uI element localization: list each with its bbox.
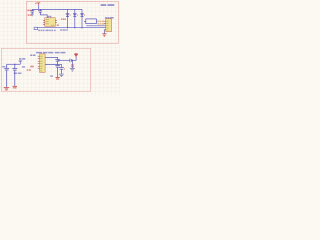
capacitor C6 [55, 66, 60, 78]
U1 pin stubs left [43, 20, 45, 24]
ground under C7 (dark) [59, 74, 64, 76]
net label text under bus left (blue) [38, 29, 55, 31]
value text (orange) [97, 20, 104, 22]
value text 1k (red) [61, 18, 66, 20]
wire J2 lower pin to C7 [45, 64, 61, 67]
U1 inner pin names [45, 20, 54, 26]
label C3 (blue text) [2, 66, 5, 68]
label text above J1 (blue) [105, 17, 114, 19]
capacitor C7 [59, 68, 64, 74]
wire branch to C8 [58, 59, 70, 61]
net label text under bus mid (blue) [60, 29, 68, 31]
ground under J1 (red) [102, 34, 106, 36]
capacitor C1 [30, 9, 34, 13]
value text (red) under U1 right [57, 24, 59, 26]
wire C2 to U1 [40, 15, 47, 18]
J1 pin stubs left [104, 21, 106, 30]
J2 pin stubs left [38, 56, 40, 68]
capacitor C8 (horizontal) [70, 59, 72, 63]
label U1 (blue text) [48, 16, 52, 18]
pin number 1 (red) [37, 10, 40, 11]
sheet frame 2 (bottom schematic sheet border) [1, 48, 90, 91]
label left of J2 (blue text) [30, 54, 35, 56]
connector J2 body [40, 54, 46, 73]
IC U1 body [45, 18, 55, 27]
junction dots on bus [67, 27, 68, 28]
J2 inner pin marks [40, 56, 43, 71]
wire VCC stem [19, 61, 21, 64]
pin number red mark at C7 [63, 68, 66, 69]
power flag (red) sheet2 right [75, 54, 78, 57]
diode D1 [66, 9, 71, 27]
sheet frame 1 (top schematic sheet border) [26, 2, 118, 44]
label small (blue text) bottom [50, 75, 53, 77]
ground bars under C4 (red) [13, 86, 18, 88]
label left of J2 (red text) [30, 66, 34, 68]
capacitor C4 [12, 64, 17, 86]
connector J1 body [106, 19, 112, 32]
wire upper bus [86, 25, 106, 27]
net label +5V (red text) [27, 9, 31, 11]
wire J2 pin to C5 chain [45, 57, 58, 59]
power flag +5V P1 [35, 3, 40, 5]
capacitor C2 [39, 9, 43, 15]
sheet title text (blue, top right) [101, 4, 115, 6]
capacitor C5 [55, 60, 60, 66]
bus entry square node A [34, 27, 37, 30]
power flag VCC bar [19, 60, 22, 62]
diode D2 [73, 9, 78, 27]
net label (red text) beside ground [71, 64, 74, 66]
power flag VCC sheet2 (blue text) [19, 58, 25, 60]
label C4 (blue text) [22, 66, 25, 68]
ground under C3 (red) [4, 88, 10, 90]
diode D3 [80, 9, 85, 27]
ground right (dark) [70, 68, 75, 71]
ground under C1 [31, 14, 34, 16]
wire J1 ground stem [103, 30, 105, 34]
junction dot [14, 64, 15, 65]
J1 inner pin marks [106, 21, 108, 30]
label text above J2 (long blue) [36, 52, 65, 54]
net label GND (red text) [28, 14, 32, 16]
wire C8 to power flag [72, 57, 76, 61]
wire stem from +5V flag [38, 5, 40, 10]
value text (red) right of caps [27, 69, 31, 71]
ground bars below C6 (red) [56, 77, 60, 79]
wire horizontal VCC net sheet2 [7, 63, 21, 65]
wire lower bus [38, 27, 106, 29]
junction dot [72, 60, 73, 61]
capacitor C3 [4, 64, 9, 87]
wire top horizontal net [32, 8, 82, 10]
U1 pin stubs right [55, 20, 57, 22]
label text below C4 (blue) [14, 72, 22, 74]
wire down to ground right [71, 60, 73, 68]
resistor R1 [84, 19, 96, 24]
